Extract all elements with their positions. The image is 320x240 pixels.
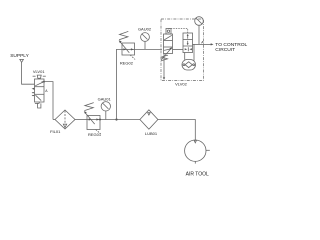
- regulator REG02 adjustment arrow: [120, 41, 130, 53]
- gauge GAU01: [101, 102, 110, 111]
- valve VLV01 port label A: [45, 89, 48, 93]
- wire riser to regulator REG02: [117, 49, 123, 119]
- wire filter to regulator REG01: [75, 119, 87, 121]
- air tool right stub: [206, 149, 210, 151]
- junction dot riser: [115, 118, 117, 120]
- valve VLV01 top-cell flow path: [35, 82, 43, 86]
- regulator REG01 spring: [84, 103, 93, 111]
- VLV02 left valve spring: [161, 55, 168, 61]
- valve VLV01 body (3/2 valve): [35, 79, 45, 102]
- svg-text:VLV02: VLV02: [175, 81, 187, 86]
- svg-text:SUPPLY: SUPPLY: [10, 53, 29, 59]
- regulator REG02 body: [122, 43, 135, 55]
- svg-text:GAU02: GAU02: [138, 27, 152, 32]
- gauge GAU01 label: [98, 97, 112, 102]
- gauge on VLV02 assembly: [195, 17, 204, 26]
- regulator REG02 pilot drain: [130, 55, 135, 59]
- svg-text:REG02: REG02: [120, 61, 134, 66]
- regulator REG01 adjustment arrow: [85, 112, 95, 124]
- valve VLV01 manual actuator: [33, 75, 46, 78]
- svg-text:AIR TOOL: AIR TOOL: [186, 172, 209, 178]
- filter FIL01 label: [50, 129, 61, 134]
- svg-text:LUB01: LUB01: [145, 131, 158, 136]
- filter FIL01: [55, 110, 75, 129]
- junction dot valve outlet A: [43, 81, 45, 83]
- junction dot regulator REG01 outlet: [99, 119, 101, 121]
- wire right valve to stadium: [184, 53, 186, 60]
- air tool label: [186, 172, 209, 178]
- VLV02 assembly enclosure (dash-dot): [161, 19, 204, 81]
- air tool inlet arrowhead: [194, 140, 196, 143]
- gauge stem to outlet line: [198, 25, 200, 44]
- regulator REG02 spring: [119, 31, 128, 39]
- wire main line to filter: [53, 119, 55, 121]
- lubricator LUB01 label: [145, 131, 158, 136]
- VLV02 slow-start valve body (right): [183, 33, 193, 53]
- valve VLV01 exhaust stub and vent: [38, 102, 40, 103]
- air tool AIR TOOL: [185, 140, 206, 161]
- lubricator LUB01: [140, 110, 158, 129]
- valve VLV01 exhaust arrow (left, mid cell): [32, 88, 35, 90]
- svg-text:REG01: REG01: [88, 132, 102, 137]
- valve VLV01 bottom-cell flow path: [36, 95, 42, 100]
- node SUPPLY label: [10, 53, 29, 59]
- wire stadium to outlet: [193, 44, 195, 60]
- supply source symbol: [20, 59, 24, 62]
- regulator REG02 label: [120, 61, 134, 66]
- VLV02 left valve flow paths: [164, 35, 172, 40]
- regulator REG01 body: [87, 116, 100, 130]
- gauge GAU02 stem: [144, 41, 146, 49]
- VLV02 right valve arrows: [187, 35, 189, 39]
- wire lubricator to air tool: [158, 120, 195, 141]
- air tool bottom stub: [194, 161, 196, 163]
- wire supply to valve VLV01 P port: [22, 62, 35, 84]
- wire regulator REG02 to VLV02 assembly: [135, 48, 163, 50]
- VLV02 left valve solenoid box: [166, 29, 171, 35]
- regulator REG01 label: [88, 132, 102, 137]
- VLV02 left valve exhaust wire: [163, 54, 165, 76]
- wire left valve to right valve: [173, 48, 184, 50]
- svg-text:CIRCUIT: CIRCUIT: [215, 47, 235, 53]
- VLV02 shut-off valve body (left): [164, 34, 173, 54]
- valve VLV01 port arrows (left, bottom cell): [32, 92, 35, 94]
- valve VLV01 label: [33, 69, 45, 74]
- svg-text:FIL01: FIL01: [50, 129, 61, 134]
- wire to control circuit with arrowhead: [204, 43, 212, 45]
- VLV02 pilot line (dashed): [169, 29, 188, 34]
- gauge GAU02 label: [138, 27, 152, 32]
- gauge GAU01 stem: [105, 111, 107, 120]
- wire regulator REG01 to lubricator: [100, 119, 140, 121]
- VLV02 label: [175, 81, 187, 86]
- svg-text:VLV01: VLV01: [33, 69, 45, 74]
- wire valve A port down to main line: [44, 82, 53, 120]
- VLV02 exhaust arrow: [163, 76, 165, 78]
- node A label: [201, 40, 204, 44]
- wire outlet to enclosure edge: [193, 43, 204, 45]
- gauge GAU02: [141, 33, 150, 42]
- VLV02 flow control (stadium): [182, 60, 196, 71]
- label TO CONTROL CIRCUIT: [215, 42, 247, 53]
- regulator REG01 pilot drain: [96, 130, 101, 134]
- svg-text:GAU01: GAU01: [98, 97, 112, 102]
